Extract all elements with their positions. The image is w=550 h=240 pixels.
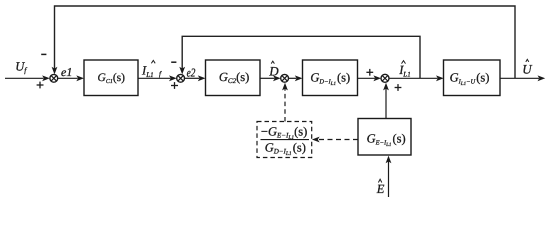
summing junction S4 [381, 74, 389, 82]
sign plus below-right of S4 [395, 84, 402, 91]
svg-text:D: D [268, 63, 279, 78]
svg-text:E: E [376, 182, 385, 196]
node I_L1 hat label [398, 61, 411, 79]
node U hat output label [522, 59, 533, 76]
wire GC1 to S2 [138, 75, 177, 81]
svg-text:GC2(s): GC2(s) [219, 70, 249, 85]
svg-text:GC1(s): GC1(s) [98, 72, 126, 85]
wire dashed from dashed block up to S3 [282, 83, 288, 122]
wire S1 to GC1 [58, 75, 84, 81]
block GE-IL1 [358, 119, 411, 156]
node E hat input label [376, 179, 385, 196]
summing junction S1 [50, 74, 58, 82]
sign plus at S1 [37, 82, 44, 89]
summing junction S3 [281, 74, 289, 82]
svg-text:e2: e2 [187, 65, 196, 79]
svg-text:GD−IL1 (s): GD−IL1 (s) [310, 71, 350, 87]
wire outer feedback loop [52, 6, 515, 78]
fraction bar [261, 139, 310, 141]
svg-text:GD−IL1 (s): GD−IL1 (s) [265, 141, 306, 157]
svg-text:L1: L1 [145, 71, 153, 79]
wire S3 to GD-IL1 [289, 75, 303, 81]
wire S4 to GIL1-U [389, 75, 444, 81]
svg-text:f: f [24, 66, 27, 75]
wire GE-IL1 up to S4 [383, 83, 389, 119]
svg-text:U: U [522, 61, 533, 76]
wire output U hat [500, 75, 545, 81]
wire GD-IL1 to S4 [358, 75, 382, 81]
wire inner feedback loop [179, 36, 420, 78]
block GD-IL1 [303, 60, 358, 96]
svg-text:e1: e1 [61, 65, 72, 79]
wire S2 to GC2 [185, 75, 206, 81]
wire E hat input into GE-IL1 [386, 156, 392, 197]
wire dashed from GE-IL1 to dashed block [312, 137, 358, 143]
wire input to S1 [5, 75, 50, 81]
svg-text:L1: L1 [402, 70, 410, 78]
node U_f input label [15, 59, 27, 74]
sign plus left of S4 [366, 69, 373, 76]
wire GC2 to S3 [260, 75, 281, 81]
sign minus at S2 [171, 61, 176, 63]
svg-text:GE−IL1 (s): GE−IL1 (s) [367, 132, 406, 148]
summing junction S2 [177, 74, 185, 82]
sign minus at S1 [41, 53, 46, 55]
block dashed compensation [257, 122, 312, 158]
svg-text:−GE−IL1(s): −GE−IL1(s) [261, 125, 307, 141]
block GC2 [206, 60, 261, 96]
node I_L1_f label with hat [141, 60, 162, 78]
block GC1 [84, 60, 138, 96]
block GIL1-U [444, 60, 501, 96]
svg-text:f: f [159, 70, 162, 78]
svg-text:GIL1−U (s): GIL1−U (s) [450, 71, 490, 87]
node D hat label [268, 61, 279, 78]
sign plus at S2 [171, 82, 178, 89]
